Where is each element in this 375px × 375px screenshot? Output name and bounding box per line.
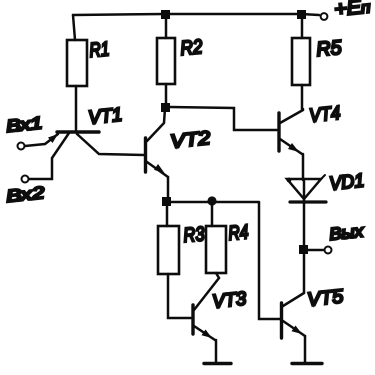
terminal Вх2 — [22, 176, 29, 183]
node: output junction dot — [299, 245, 308, 254]
node: rail-R1 corner, wire down to R1 — [73, 15, 75, 40]
wire: VT3 emitter down — [215, 340, 218, 362]
diode VD1 — [287, 175, 326, 202]
node: R4 junction dot — [207, 196, 216, 205]
wire: VD1 to output node — [303, 202, 306, 247]
svg-text:R3: R3 — [183, 223, 206, 247]
node: rail-R2 junction dot — [161, 10, 170, 19]
wire: R1 bottom to VT1 — [75, 86, 78, 131]
wire: VT5 emitter down — [304, 336, 307, 362]
svg-text:R2: R2 — [180, 36, 204, 60]
svg-text:VT3: VT3 — [211, 288, 247, 312]
wire: rail to R2 — [165, 14, 168, 38]
resistor R2 — [157, 38, 175, 84]
ground under VT5 — [292, 362, 322, 365]
wire: output stub — [308, 249, 323, 252]
node: R3 junction dot — [162, 197, 171, 206]
svg-text:Вых: Вых — [328, 221, 364, 244]
ground under VT3 — [204, 362, 231, 365]
transistor VT5 — [282, 303, 306, 338]
svg-text:Вх2: Вх2 — [5, 183, 45, 206]
resistor R4 — [206, 226, 226, 273]
wire: rail to R5 — [301, 14, 304, 38]
terminal +En — [321, 13, 328, 20]
wire: VT5 base from R3/R4 rail — [259, 203, 280, 319]
svg-text:Вх1: Вх1 — [5, 113, 43, 136]
wire: VT2 emitter to lower rail — [167, 177, 170, 200]
wire: node to R3 — [166, 206, 169, 226]
svg-text:R4: R4 — [228, 221, 250, 245]
wire: R5 bottom to VT4 collector — [302, 85, 303, 109]
svg-text:VT4: VT4 — [308, 103, 341, 127]
transistor VT1 (rotated, two input leads) — [25, 132, 144, 179]
terminal Вых — [325, 247, 332, 254]
svg-text:VD1: VD1 — [328, 170, 365, 195]
transistor VT4 — [279, 110, 303, 154]
svg-text:VT2: VT2 — [169, 128, 211, 153]
wire: VT4 emitter to VD1 — [302, 154, 305, 180]
resistor R3 — [158, 226, 179, 274]
transistor VT3 — [193, 278, 219, 340]
node: rail-R5 junction dot — [297, 10, 306, 19]
terminal Вх1 — [18, 143, 25, 150]
wire: R4 bottom to VT3 collector — [216, 273, 219, 278]
wire: +En power rail — [73, 14, 319, 15]
wire: R2 bottom to node — [165, 84, 168, 107]
resistor R5 — [292, 38, 310, 85]
wire: R3 bottom to VT3 base — [168, 274, 191, 318]
svg-text:R1: R1 — [89, 38, 111, 62]
wire: node to R4 — [211, 205, 214, 226]
svg-text:R5: R5 — [316, 37, 344, 61]
transistor VT2 — [146, 108, 169, 177]
node: R2-VT2 collector junction dot — [161, 103, 170, 112]
wire: node to VT4 base (step) — [170, 107, 277, 130]
svg-text:VT1: VT1 — [87, 105, 123, 129]
wire: lower rail R3/R4 — [167, 201, 259, 204]
svg-text:VT5: VT5 — [306, 286, 344, 311]
wire: output node to VT5 collector — [283, 254, 304, 306]
svg-text:+Eп: +Eп — [333, 0, 371, 21]
resistor R1 — [67, 40, 87, 86]
